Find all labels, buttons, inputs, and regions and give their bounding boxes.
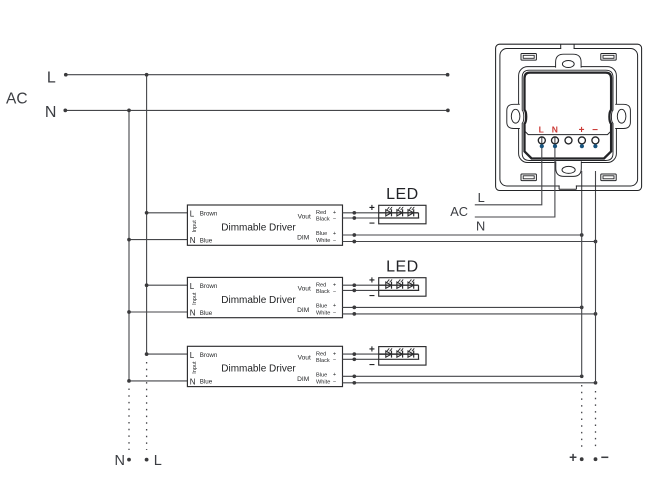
- svg-text:AC: AC: [450, 204, 468, 219]
- svg-text:Blue: Blue: [316, 303, 327, 309]
- node L continuation terminal (bottom left): [145, 453, 162, 469]
- svg-text:Dimmable Driver: Dimmable Driver: [221, 364, 296, 375]
- svg-text:−: −: [333, 238, 336, 244]
- svg-text:−: −: [369, 219, 375, 230]
- svg-text:Vout: Vout: [298, 355, 311, 362]
- dimmable driver U3: [187, 346, 342, 386]
- svg-text:+: +: [579, 125, 585, 136]
- svg-text:N: N: [552, 124, 558, 134]
- wire LED string return of driver 1: [418, 213, 420, 218]
- terminal wire blue dot: [593, 144, 597, 148]
- svg-text:+: +: [333, 210, 336, 216]
- svg-text:Vout: Vout: [298, 286, 311, 293]
- svg-text:Blue: Blue: [316, 372, 327, 378]
- wire - dim bus from switch: [595, 171, 597, 383]
- svg-text:DIM: DIM: [297, 307, 309, 314]
- svg-text:N: N: [476, 218, 485, 233]
- svg-text:Vout: Vout: [298, 213, 311, 220]
- svg-text:+: +: [333, 303, 336, 309]
- svg-text:Black: Black: [316, 217, 330, 223]
- panel right ear with oval hole: [615, 104, 630, 128]
- wire N feed vertical bus: [127, 109, 131, 381]
- svg-text:−: −: [333, 289, 336, 295]
- svg-text:−: −: [369, 360, 375, 371]
- panel bottom tab notch: [559, 185, 576, 189]
- wire N input to driver 2: [127, 310, 187, 314]
- switch terminal strip edge: [525, 131, 611, 134]
- dimmable driver U2: [187, 277, 342, 317]
- svg-text:+: +: [333, 231, 336, 237]
- terminal circle 2: [552, 137, 559, 144]
- panel bottom ear with oval hole: [556, 161, 582, 176]
- wire N input to driver 3: [127, 379, 187, 383]
- svg-text:Brown: Brown: [200, 211, 218, 218]
- svg-text:−: −: [333, 358, 336, 364]
- svg-text:Brown: Brown: [200, 283, 218, 290]
- svg-text:White: White: [316, 379, 330, 385]
- switch wall panel (touch dimmer): [475, 44, 642, 217]
- dimmable driver U1: [187, 205, 342, 245]
- wire L feed dotted continuation: [146, 362, 148, 450]
- terminal wire blue dot: [540, 144, 544, 148]
- svg-text:−: −: [333, 310, 336, 316]
- svg-text:LED: LED: [386, 258, 419, 275]
- wire Vout red + of driver 3: [343, 352, 419, 356]
- wire + dim bus from switch: [581, 171, 583, 376]
- wire top L line: [64, 73, 450, 77]
- wire Vout black - of driver 2: [343, 289, 420, 293]
- terminal circle 1: [538, 137, 545, 144]
- svg-text:Black: Black: [316, 358, 330, 364]
- node N continuation terminal (bottom left): [115, 453, 131, 469]
- svg-text:Red: Red: [316, 210, 326, 216]
- wire switch N lead: [475, 136, 555, 217]
- svg-text:Red: Red: [316, 352, 326, 358]
- svg-text:Blue: Blue: [200, 237, 213, 244]
- panel screw slot at (521.0,174.0): [521, 174, 536, 181]
- svg-text:+: +: [333, 372, 336, 378]
- panel left ear with oval hole: [507, 104, 520, 128]
- panel screw slot at (600.8,174.0): [601, 174, 616, 181]
- svg-text:Input: Input: [192, 220, 198, 233]
- svg-text:L: L: [539, 124, 544, 134]
- LED module D3 (strip of 3 LEDs): [379, 347, 426, 366]
- svg-text:Blue: Blue: [200, 310, 213, 317]
- panel top ear with oval hole: [556, 54, 582, 67]
- svg-text:N: N: [45, 104, 57, 121]
- svg-text:Blue: Blue: [316, 231, 327, 237]
- wire DIM white - of driver 2: [343, 312, 598, 316]
- terminal circle 5: [592, 137, 599, 144]
- panel mounting frame: [519, 67, 617, 163]
- svg-text:L: L: [190, 282, 195, 291]
- wire N feed dotted continuation: [128, 389, 130, 451]
- svg-text:Black: Black: [316, 289, 330, 295]
- svg-text:Red: Red: [316, 283, 326, 289]
- wire Vout red + of driver 1: [343, 211, 419, 215]
- svg-text:LED: LED: [386, 186, 419, 203]
- wire DIM white - of driver 1: [343, 240, 598, 244]
- svg-text:−: −: [333, 379, 336, 385]
- svg-text:+: +: [569, 450, 577, 465]
- switch module body (thick border): [525, 73, 612, 159]
- svg-text:L: L: [190, 210, 195, 219]
- wire DIM blue + of driver 1: [343, 233, 584, 237]
- svg-text:+: +: [369, 203, 375, 214]
- svg-text:+: +: [369, 345, 375, 356]
- node + continuation terminal (bottom right): [569, 450, 583, 465]
- svg-text:White: White: [316, 311, 330, 317]
- LED module D2 (strip of 3 LEDs): [379, 278, 426, 297]
- svg-text:N: N: [190, 377, 196, 386]
- svg-text:N: N: [115, 453, 125, 469]
- wire Vout red + of driver 2: [343, 283, 419, 287]
- wire DIM white - of driver 3: [343, 381, 598, 385]
- wire top N line: [63, 109, 449, 113]
- wire + dim bus dotted continuation: [581, 385, 583, 450]
- switch module thin outline: [522, 70, 613, 160]
- wire Vout black - of driver 1: [343, 216, 420, 220]
- panel top tab notch: [561, 44, 574, 49]
- LED module D1 (strip of 3 LEDs): [379, 205, 426, 224]
- wire L feed vertical bus: [145, 73, 149, 354]
- svg-text:−: −: [601, 449, 609, 465]
- panel outer plate: [496, 44, 642, 190]
- wire LED string return of driver 3: [418, 354, 420, 359]
- svg-text:+: +: [369, 276, 375, 287]
- svg-text:−: −: [592, 125, 598, 136]
- panel inner plate edge: [500, 49, 638, 187]
- svg-text:AC: AC: [6, 90, 28, 107]
- svg-text:Input: Input: [192, 361, 198, 374]
- svg-text:N: N: [190, 236, 196, 245]
- svg-text:Dimmable Driver: Dimmable Driver: [221, 295, 296, 306]
- svg-text:Blue: Blue: [200, 379, 213, 386]
- svg-text:DIM: DIM: [297, 235, 309, 242]
- wire L input to driver 1: [145, 211, 188, 215]
- wire DIM blue + of driver 3: [343, 374, 584, 378]
- svg-text:−: −: [369, 291, 375, 302]
- svg-text:N: N: [190, 308, 196, 317]
- svg-text:White: White: [316, 238, 330, 244]
- wire switch L lead: [475, 136, 542, 204]
- terminal circle 3: [565, 137, 572, 144]
- wire Vout black - of driver 3: [343, 357, 420, 361]
- wire N input to driver 1: [127, 238, 187, 242]
- svg-text:Dimmable Driver: Dimmable Driver: [221, 222, 296, 233]
- svg-text:Input: Input: [192, 292, 198, 305]
- svg-text:L: L: [154, 453, 162, 469]
- svg-text:DIM: DIM: [297, 376, 309, 383]
- node - continuation terminal (bottom right): [594, 449, 609, 465]
- panel screw slot at (600.8,53.5): [601, 54, 616, 61]
- terminal circle 4: [578, 137, 585, 144]
- terminal wire blue dot: [553, 144, 557, 148]
- wire - dim bus dotted continuation: [595, 391, 597, 450]
- svg-text:L: L: [190, 351, 195, 360]
- svg-text:L: L: [47, 70, 56, 87]
- svg-text:−: −: [333, 216, 336, 222]
- wire LED string return of driver 2: [418, 285, 420, 290]
- panel screw slot at (521.0,53.5): [521, 54, 536, 61]
- svg-text:L: L: [478, 190, 485, 205]
- svg-text:+: +: [333, 351, 336, 357]
- terminal wire blue dot: [580, 144, 584, 148]
- wire L input to driver 2: [145, 283, 188, 287]
- svg-text:Brown: Brown: [200, 352, 218, 359]
- wire L input to driver 3: [145, 352, 188, 356]
- svg-text:+: +: [333, 282, 336, 288]
- wire DIM blue + of driver 2: [343, 306, 584, 310]
